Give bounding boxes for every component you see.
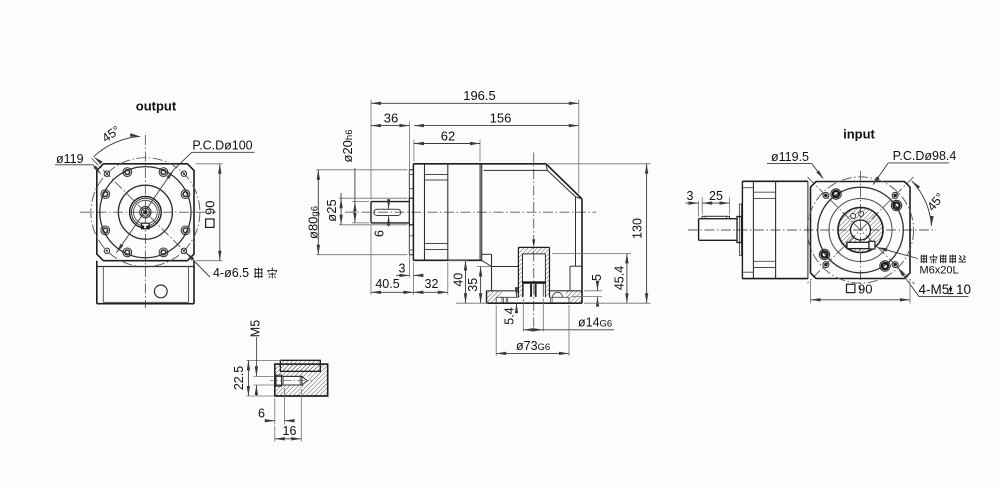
svg-text:M5: M5 (248, 320, 262, 337)
svg-text:4-ø6.5: 4-ø6.5 (213, 266, 249, 280)
svg-text:ø119.5: ø119.5 (771, 150, 809, 164)
svg-text:P.C.Dø100: P.C.Dø100 (192, 139, 252, 153)
svg-text:32: 32 (425, 277, 439, 291)
svg-text:45.4: 45.4 (612, 266, 626, 290)
svg-text:25: 25 (709, 189, 723, 203)
svg-text:ø73G6: ø73G6 (516, 339, 550, 353)
svg-text:10: 10 (956, 282, 971, 297)
svg-text:40: 40 (452, 273, 466, 287)
svg-text:35: 35 (466, 278, 480, 292)
svg-text:36: 36 (384, 111, 398, 126)
svg-text:5: 5 (590, 274, 604, 281)
svg-text:90: 90 (858, 281, 872, 296)
svg-text:90: 90 (203, 201, 218, 215)
svg-text:4-M5: 4-M5 (919, 282, 950, 297)
svg-text:ø119: ø119 (56, 152, 84, 166)
svg-text:output: output (136, 99, 177, 114)
svg-text:input: input (843, 127, 875, 142)
svg-text:3: 3 (687, 189, 694, 203)
svg-text:3: 3 (399, 261, 406, 275)
svg-text:ø25: ø25 (324, 199, 339, 221)
svg-text:22.5: 22.5 (232, 366, 246, 390)
svg-text:62: 62 (441, 128, 455, 143)
svg-text:6: 6 (258, 407, 265, 421)
svg-text:130: 130 (631, 218, 645, 239)
svg-text:40.5: 40.5 (375, 277, 399, 291)
svg-text:ø14G6: ø14G6 (578, 316, 612, 330)
svg-text:16: 16 (283, 424, 297, 438)
svg-text:6: 6 (373, 230, 387, 237)
svg-text:5.4: 5.4 (502, 307, 516, 324)
svg-text:M6x20L: M6x20L (920, 265, 959, 277)
svg-text:196.5: 196.5 (463, 88, 496, 103)
svg-text:P.C.Dø98.4: P.C.Dø98.4 (893, 149, 957, 163)
svg-text:156: 156 (490, 111, 512, 126)
